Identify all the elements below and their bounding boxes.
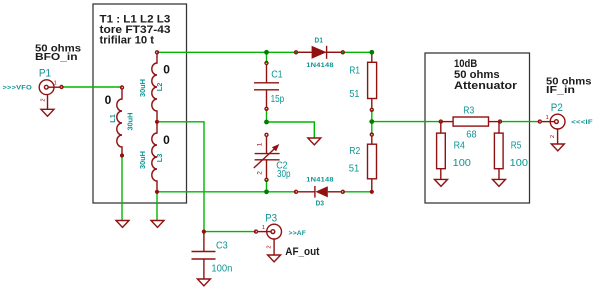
svg-text:68: 68 bbox=[466, 128, 476, 140]
svg-text:1N4148: 1N4148 bbox=[306, 177, 334, 184]
svg-text:1: 1 bbox=[257, 142, 264, 146]
svg-text:100: 100 bbox=[453, 157, 471, 169]
svg-text:100n: 100n bbox=[211, 262, 232, 274]
svg-text:2: 2 bbox=[267, 245, 273, 248]
svg-text:BFO_in: BFO_in bbox=[35, 52, 78, 63]
svg-text:R2: R2 bbox=[349, 145, 360, 157]
svg-text:D1: D1 bbox=[315, 38, 324, 45]
svg-text:R5: R5 bbox=[511, 139, 522, 151]
svg-text:30p: 30p bbox=[277, 168, 291, 180]
svg-text:30uH: 30uH bbox=[125, 113, 134, 131]
svg-text:30uH: 30uH bbox=[138, 79, 147, 97]
svg-text:0: 0 bbox=[163, 63, 170, 77]
svg-text:P2: P2 bbox=[551, 102, 563, 114]
svg-text:L3: L3 bbox=[155, 154, 164, 163]
svg-text:L2: L2 bbox=[155, 83, 164, 92]
svg-text:2: 2 bbox=[550, 135, 556, 138]
svg-text:R3: R3 bbox=[463, 104, 474, 116]
svg-text:0: 0 bbox=[163, 133, 170, 147]
svg-text:1: 1 bbox=[546, 115, 549, 121]
svg-text:0: 0 bbox=[105, 93, 112, 107]
svg-text:>>AF: >>AF bbox=[289, 230, 307, 237]
svg-text:1: 1 bbox=[54, 80, 57, 86]
svg-text:P1: P1 bbox=[39, 67, 51, 79]
svg-text:30uH: 30uH bbox=[138, 151, 147, 169]
svg-text:15p: 15p bbox=[271, 93, 285, 105]
svg-text:trifilar 10 t: trifilar 10 t bbox=[100, 35, 155, 47]
svg-text:>>>VFO: >>>VFO bbox=[3, 84, 33, 91]
svg-text:R4: R4 bbox=[454, 139, 466, 151]
svg-text:51: 51 bbox=[349, 163, 360, 175]
svg-text:1: 1 bbox=[262, 225, 265, 231]
svg-text:L1: L1 bbox=[108, 114, 117, 123]
svg-text:2: 2 bbox=[257, 171, 264, 175]
svg-text:R1: R1 bbox=[349, 64, 360, 76]
svg-text:Attenuator: Attenuator bbox=[454, 80, 518, 92]
svg-text:1N4148: 1N4148 bbox=[306, 62, 334, 69]
svg-text:<<<IF: <<<IF bbox=[571, 119, 593, 126]
svg-text:100: 100 bbox=[510, 157, 528, 169]
svg-text:51: 51 bbox=[349, 88, 359, 100]
svg-text:IF_in: IF_in bbox=[546, 85, 575, 96]
svg-text:2: 2 bbox=[40, 98, 46, 101]
svg-text:D3: D3 bbox=[316, 200, 325, 207]
svg-text:C1: C1 bbox=[271, 69, 283, 81]
svg-text:P3: P3 bbox=[265, 212, 277, 224]
svg-text:AF_out: AF_out bbox=[285, 246, 320, 258]
svg-text:C3: C3 bbox=[216, 239, 228, 251]
